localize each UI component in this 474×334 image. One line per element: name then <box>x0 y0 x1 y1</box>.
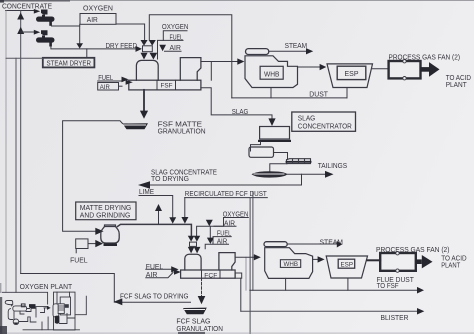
component: process gas fan 1 <box>389 61 421 78</box>
wire: steam line 2 <box>287 243 337 245</box>
vessel: WHB1 steam drum <box>246 49 269 55</box>
wire: FSF gas line to WHB <box>201 61 238 63</box>
vessel: FCF settler <box>181 270 236 278</box>
wire: air line FCF burner <box>146 273 173 278</box>
wire: dryer2 feed line y=32 <box>21 31 34 33</box>
wire: fuel bracket FCF <box>205 226 231 249</box>
component: dark bits <box>65 304 69 308</box>
box: SLAG CONCENTRATOR label <box>292 112 356 131</box>
wire: ESP2 to fan2 (thick) <box>368 259 381 261</box>
svg-text:CONCENTRATE: CONCENTRATE <box>2 2 52 11</box>
component: mill base bar <box>258 140 291 142</box>
vessel: WHB2 steam drum <box>264 242 287 247</box>
arrow: fuel into settler <box>122 77 129 83</box>
wire: slag tap from FSF settler <box>201 88 272 119</box>
vessel: steam dryer 2 (feeder + drum) <box>36 30 55 46</box>
svg-text:PLANT: PLANT <box>441 262 461 269</box>
arrow: burner FSF bottom-right down <box>150 53 158 60</box>
wire: FSF dust recirculation top line <box>149 15 232 98</box>
svg-text:GRANULATION: GRANULATION <box>176 326 223 333</box>
wire: flue dust line <box>250 289 417 291</box>
label cell FSF <box>157 80 176 90</box>
svg-text:LIME: LIME <box>139 189 154 196</box>
wire: ESP1 to fan1 <box>373 68 389 70</box>
arrow: into ESP1 <box>320 64 327 70</box>
box: cold box inner <box>60 297 70 315</box>
wire: air underline FSF top <box>165 50 182 52</box>
svg-text:OXYGEN: OXYGEN <box>162 24 189 31</box>
vessel: FSF reaction shaft <box>136 60 158 80</box>
vessel: FCF slag granulation boat <box>183 308 207 315</box>
component: FSF concentrate burner box <box>143 46 153 52</box>
arrow: recycle up 2 <box>17 27 24 34</box>
wire: lime line <box>139 196 173 218</box>
arrow: FCF slag down <box>198 296 206 304</box>
arrow: air down (FSF top) <box>159 45 166 51</box>
arrow: fuel into FCF settler <box>171 266 178 272</box>
wire: plant piping <box>12 305 80 330</box>
svg-text:SLAG: SLAG <box>298 116 316 123</box>
wire: oxygen product line <box>75 296 86 315</box>
arrow: gas into WHB2 <box>254 254 261 260</box>
component: small valve <box>22 304 26 307</box>
svg-text:ESP: ESP <box>345 71 359 78</box>
wire: left vertical x=6 <box>5 11 7 293</box>
svg-text:MATTE DRYING: MATTE DRYING <box>80 205 132 212</box>
wire: left vertical x=20.7 recycle riser <box>20 11 22 274</box>
vessel: ESP2 <box>326 256 367 278</box>
svg-text:TAILINGS: TAILINGS <box>318 163 348 170</box>
wire: tailings arrow line <box>288 173 326 175</box>
wire: dryer vent <box>158 211 160 225</box>
arrow: steam right (bottom) <box>337 241 343 248</box>
wire: fuel underline FSF burner <box>98 80 122 82</box>
svg-text:AIR: AIR <box>87 17 98 24</box>
arrow: into steam dryer 2 <box>34 30 40 35</box>
wire: fuel bracket FSF <box>158 40 184 59</box>
vessel: FSF settler <box>129 80 201 90</box>
svg-text:FUEL: FUEL <box>70 258 88 265</box>
vessel: ESP1 <box>327 64 373 88</box>
wire: WHB1 to ESP1 <box>298 66 320 68</box>
box: cold box <box>54 292 76 330</box>
svg-text:WHB: WHB <box>264 71 280 78</box>
box: AIR (FSF burner) <box>98 83 119 91</box>
svg-text:OXYGEN PLANT: OXYGEN PLANT <box>20 282 73 291</box>
arrow: burner FSF bottom-left down <box>141 53 148 60</box>
arrow: recirc dust down onto feed line <box>181 217 188 224</box>
wire: settler roof air leg <box>210 62 212 81</box>
svg-text:AIR: AIR <box>217 238 227 245</box>
component: compressor blob <box>29 304 36 309</box>
wire: matte tap from settler <box>143 90 145 112</box>
wire: matte to drying line <box>63 121 123 231</box>
svg-text:OXYGEN: OXYGEN <box>83 5 113 12</box>
wire: recirc loop riser A <box>249 198 251 334</box>
wire: recirculated dust underline <box>185 197 267 199</box>
wire: WHB2 dust drop <box>285 278 287 290</box>
wire: mill to conditioner <box>251 142 261 151</box>
wire: recirc loop riser B <box>252 192 254 291</box>
svg-text:GRANULATION: GRANULATION <box>158 128 206 135</box>
svg-text:CONCENTRATOR: CONCENTRATOR <box>298 124 352 131</box>
vessel: matte dryer pot <box>101 227 119 244</box>
svg-text:AIR: AIR <box>100 84 110 91</box>
arrow: lime down onto feed line <box>169 217 176 223</box>
component: pot base <box>104 243 118 246</box>
wire: ESP2 dust drop <box>347 278 349 290</box>
vessel: FCF reaction shaft <box>185 254 201 270</box>
wire: slag concentrate drop <box>150 174 302 185</box>
wire: air stub FSF burner <box>119 85 123 87</box>
wire: left vertical x=16 <box>15 58 17 292</box>
wire: conditioner to flotation <box>274 153 288 160</box>
arrow: blister right <box>417 308 424 315</box>
wire: plant internal risers <box>20 292 75 330</box>
artifact: top-left corner mark <box>0 0 4 3</box>
svg-text:FCF SLAG: FCF SLAG <box>176 319 210 326</box>
wire: air line from AIR box right corner to FSF burner <box>116 24 145 40</box>
wire: blister line <box>241 310 417 312</box>
arrow: vent up <box>155 204 162 211</box>
arrow: FCF burner top-left down <box>188 236 195 242</box>
box: ESP2 label <box>338 259 355 268</box>
vessel: steam dryer 1 (feeder + drum) <box>36 10 55 26</box>
arrow: slag concentrate to drying (left) <box>138 181 150 189</box>
arrow: tailings <box>325 171 334 178</box>
wire: FCF slag tap (dashed) <box>201 278 203 296</box>
wire: steam dryer label stem <box>86 49 88 58</box>
artifact: bottom smudge under granulation <box>178 332 205 334</box>
wire: dust collection line 1 <box>232 97 347 99</box>
box: ESP1 label <box>337 66 366 79</box>
svg-text:FCF: FCF <box>204 272 217 279</box>
arrow: dry feed into burner <box>136 46 143 52</box>
arrow: into ESP2 <box>318 256 325 262</box>
component: pump circle <box>13 319 19 325</box>
wire: cold box feed arrow <box>44 307 47 309</box>
wire: ESP1 dust drop <box>346 88 348 98</box>
box: AIR (oxygen plant air) <box>80 14 116 25</box>
component: FCF blister tap box <box>235 273 242 278</box>
arrow: FCF burner bottom-left down <box>188 247 195 254</box>
wire: fuel underline FCF burner <box>146 268 172 270</box>
arrow: to acid plant (top, thick) <box>421 67 430 72</box>
wire: WHB1 dust drop <box>270 88 272 98</box>
vessel: WHB2 body <box>265 248 313 279</box>
arrow: burner FSF top-left down <box>141 40 148 46</box>
svg-text:ESP: ESP <box>341 262 354 269</box>
arrow: air2 down FCF <box>207 238 214 244</box>
wire: oxygen bracket FCF <box>197 218 249 236</box>
artifact: bottom edge scan line <box>0 333 474 334</box>
wire: flotation to thickener <box>270 164 287 172</box>
component: plant small marks <box>21 304 25 307</box>
vessel: column 2 / HX <box>58 304 64 314</box>
arrow: flue dust right <box>417 287 424 294</box>
svg-text:WHB: WHB <box>284 261 299 268</box>
component: air intake scoop <box>5 301 13 306</box>
arrow: fcf slag to drying (left) <box>114 298 123 305</box>
svg-text:TO FSF: TO FSF <box>377 283 399 290</box>
svg-text:FSF: FSF <box>161 83 173 90</box>
wire: recirc dust drop <box>184 198 186 218</box>
arrow: slag into mill <box>268 118 275 126</box>
wire: oxygen plant top line <box>2 292 47 304</box>
label cell FCF <box>202 270 221 278</box>
svg-text:STEAM: STEAM <box>285 43 308 50</box>
svg-text:FCF SLAG TO DRYING: FCF SLAG TO DRYING <box>120 293 189 300</box>
artifact: top edge scan line <box>0 0 474 1</box>
wire: dryer1 discharge to air-drop junction <box>52 25 80 27</box>
vessel: WHB1 body <box>245 56 298 88</box>
arrow: FCF burner bottom-right down <box>194 247 201 254</box>
arrow: burner FSF top-right down <box>149 40 156 46</box>
arrow: to acid plant (bottom, thick) <box>416 259 422 264</box>
svg-text:STEAM DRYER: STEAM DRYER <box>47 59 92 68</box>
arrow: into steam dryer 1 <box>34 9 40 14</box>
svg-text:PLANT: PLANT <box>446 82 468 89</box>
wire: left line to steam dryer box <box>6 57 43 59</box>
wire: fuel to pot <box>88 243 96 245</box>
vessel: FCF uptake <box>219 253 235 270</box>
arrow: steam right (top) <box>306 48 313 54</box>
wire: steam line 1 <box>269 50 306 52</box>
svg-text:BLISTER: BLISTER <box>381 315 409 322</box>
component: FCF concentrate burner box <box>190 242 197 246</box>
wire: concentrate header y=10.5 <box>6 10 35 12</box>
arrow: matte into dryer pot <box>95 228 103 235</box>
artifact: left edge smudge <box>0 297 2 334</box>
arrow: gas into WHB1 <box>237 58 244 64</box>
component: process gas fan 2 <box>380 253 416 271</box>
wire: dry feed line <box>51 46 136 49</box>
wire: dryer outlet / FCF feed line <box>118 224 192 235</box>
arrow: FCF burner top-right down <box>194 236 201 242</box>
vessel: FSF uptake <box>180 58 201 81</box>
svg-text:TO DRYING: TO DRYING <box>151 176 189 183</box>
arrow: air1 down FCF <box>206 220 213 227</box>
arrow: air into settler <box>126 80 133 85</box>
arrow: recycle up 1 <box>17 13 24 20</box>
wire: air1 underline FCF <box>214 225 236 227</box>
wire: FCF roof air leg (faint) <box>245 257 247 290</box>
arrow: matte down <box>140 111 148 119</box>
vessel: intake drum <box>13 306 27 311</box>
arrow: air into FCF settler <box>174 269 181 275</box>
box: MATTE DRYING AND GRINDING label <box>76 202 136 220</box>
box: WHB1 label <box>260 66 283 79</box>
svg-text:DUST: DUST <box>309 92 328 99</box>
vessel: flotation cells <box>287 159 311 164</box>
box: WHB2 label <box>280 260 300 268</box>
wire: FCF slag return to drying <box>21 274 191 303</box>
svg-text:DRY FEED: DRY FEED <box>106 43 138 50</box>
vessel: column 1 <box>53 304 59 317</box>
vessel: conditioner <box>249 147 274 157</box>
vessel: bottom pot <box>55 316 60 324</box>
box: STEAM DRYER label <box>43 58 95 68</box>
arrow: air down onto dry feed line <box>76 43 83 48</box>
svg-text:SLAG: SLAG <box>232 109 249 116</box>
wire: FCF gas line to WHB2 <box>235 256 254 258</box>
svg-text:AND GRINDING: AND GRINDING <box>80 212 131 219</box>
vessel: slag mill <box>260 127 290 140</box>
arrow: fuel into pot <box>95 240 103 247</box>
vessel: FSF matte granulation boat <box>123 123 149 129</box>
component: fuel flag (matte dryer) <box>76 239 88 249</box>
wire: blister tap drop <box>240 278 242 311</box>
wire: air drop from AIR box left to dry feed line <box>79 24 81 43</box>
wire: WHB2 to ESP2 <box>313 258 318 260</box>
vessel: thickener lens <box>252 171 288 177</box>
wire: oxygen bracket FSF <box>163 31 187 41</box>
